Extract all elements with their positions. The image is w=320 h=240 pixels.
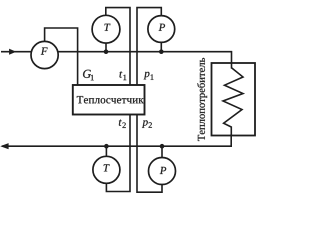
wire supply drop to heat consumer <box>231 52 233 68</box>
node junction top P <box>159 49 164 54</box>
label p2 <box>142 120 152 128</box>
wire stem bottom T <box>105 146 107 156</box>
label t2 <box>119 120 126 128</box>
flowmeter F circle <box>31 41 58 68</box>
thermometer T return circle <box>93 156 120 183</box>
wire stem bottom P <box>161 146 163 158</box>
label P supply <box>159 24 165 31</box>
heat consumer box <box>212 63 256 136</box>
heat meter box <box>73 85 145 115</box>
label G1 <box>83 70 94 81</box>
label Teplopotrebitel (vertical) <box>197 58 207 141</box>
wire p1 impulse (top P loop to heat meter) <box>137 8 161 85</box>
node junction bottom T <box>104 144 109 149</box>
arrow return outflow <box>1 144 8 149</box>
wire t1 impulse (top T loop to heat meter) <box>106 8 130 85</box>
wire p2 impulse (heat meter to bottom P loop) <box>137 115 162 192</box>
arrow supply inflow <box>9 49 15 54</box>
pressure gauge P return circle <box>149 158 176 185</box>
label F <box>41 48 48 55</box>
label t1 <box>119 71 126 80</box>
node junction top T <box>104 49 109 54</box>
label Teploschetchik <box>77 96 144 103</box>
wire stem top T <box>105 43 107 52</box>
pressure gauge P supply circle <box>148 16 175 43</box>
wire supply line (top pipe) <box>1 51 232 53</box>
wire F bypass and G impulse line <box>45 28 78 85</box>
load zigzag <box>223 68 243 136</box>
wire return line (bottom pipe) <box>2 145 232 147</box>
label T return <box>104 164 110 171</box>
thermometer T supply circle <box>92 15 120 43</box>
node junction bottom P <box>160 144 165 149</box>
wire t2 impulse (heat meter to bottom T loop) <box>106 115 130 192</box>
label p1 <box>144 72 154 80</box>
wire return riser from heat consumer <box>230 135 232 146</box>
label P return <box>160 167 166 174</box>
label T supply <box>104 24 110 31</box>
wire stem top P <box>160 42 162 51</box>
